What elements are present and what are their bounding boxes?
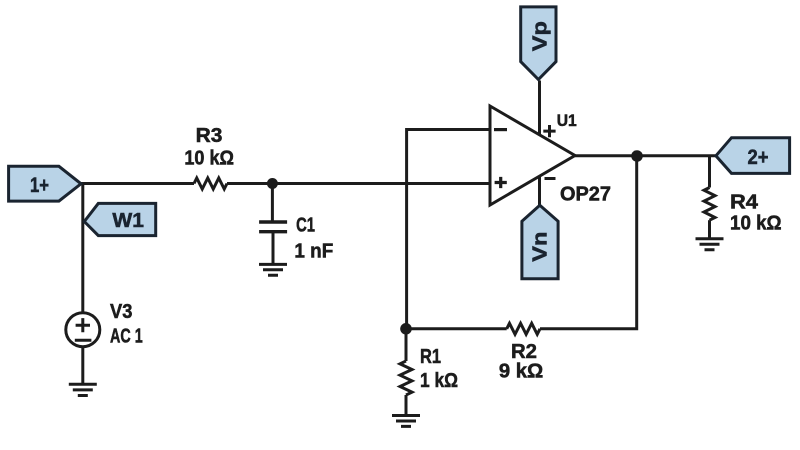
svg-text:9 kΩ: 9 kΩ xyxy=(499,361,543,383)
svg-text:1 nF: 1 nF xyxy=(294,241,333,263)
svg-text:Vn: Vn xyxy=(530,232,552,262)
svg-text:C1: C1 xyxy=(296,215,315,237)
svg-text:1 kΩ: 1 kΩ xyxy=(420,370,458,392)
svg-text:OP27: OP27 xyxy=(560,184,611,206)
svg-text:2+: 2+ xyxy=(748,146,769,169)
svg-text:U1: U1 xyxy=(557,111,577,130)
svg-text:R4: R4 xyxy=(730,192,759,214)
svg-text:10 kΩ: 10 kΩ xyxy=(730,213,782,235)
svg-text:AC 1: AC 1 xyxy=(110,325,143,347)
svg-text:R1: R1 xyxy=(420,346,441,368)
svg-text:1+: 1+ xyxy=(30,174,49,197)
svg-text:W1: W1 xyxy=(112,210,144,232)
svg-text:V3: V3 xyxy=(110,301,132,323)
svg-text:10 kΩ: 10 kΩ xyxy=(184,147,234,169)
svg-text:R3: R3 xyxy=(196,125,223,147)
svg-text:Vp: Vp xyxy=(530,21,552,51)
